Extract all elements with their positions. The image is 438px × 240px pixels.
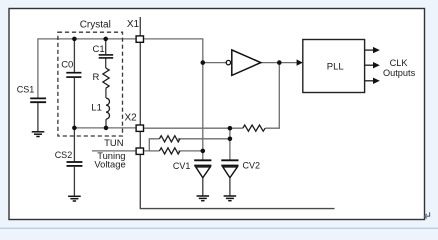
wire: C1/R/L1 series branch leads	[105, 39, 107, 128]
resistor (feedback, X2 row)	[243, 125, 265, 131]
varactor CV2: diode triangle	[223, 167, 238, 178]
junction: X2 row / CV2 branch	[228, 126, 233, 131]
wire: X2 row from pin to feedback resistor	[144, 127, 243, 129]
resistor (lower tuning, TUN to CV1 node)	[159, 148, 180, 154]
IC boundary box (left edge with pins, bottom edge)	[140, 17, 334, 209]
junction: inverter input tap	[201, 60, 206, 65]
inductor L1 (inside crystal)	[106, 98, 110, 119]
arrow: CLK output 2	[365, 62, 380, 68]
resistor R (inside crystal)	[103, 68, 109, 88]
PLL block	[303, 40, 365, 93]
arrow: CLK output 1	[365, 47, 380, 53]
capacitor CS1 plates	[30, 98, 46, 102]
ground below CS2	[68, 196, 81, 201]
crystal dashed box	[58, 32, 123, 136]
svg-text:C0: C0	[61, 59, 73, 70]
label C1	[93, 44, 105, 55]
svg-text:CLK: CLK	[390, 58, 409, 68]
junction: lower tuning resistor at CV1 node	[201, 149, 206, 154]
capacitor CS2 plates	[67, 162, 83, 166]
svg-text:X1: X1	[127, 19, 140, 30]
svg-text:PLL: PLL	[327, 62, 344, 73]
svg-text:TUN: TUN	[104, 138, 124, 149]
wire: CV2 vertical from X2 row down to CV2	[229, 128, 231, 159]
label C0	[61, 59, 73, 70]
svg-text:CS2: CS2	[55, 150, 73, 160]
wire: CV1 bottom lead	[202, 178, 204, 196]
wire: feedback vertical from inverter output down to X2 row	[265, 63, 279, 129]
resistor (upper tuning, TUN to CV2 node)	[159, 136, 180, 142]
wire: C0 branch leads	[73, 39, 75, 128]
wire: CV2 bottom lead	[229, 178, 231, 196]
capacitor C0 plates	[66, 73, 81, 77]
junction: inverter output node	[277, 60, 282, 65]
junction: bottom node / CS2 branch	[72, 126, 77, 131]
svg-text:Outputs: Outputs	[383, 68, 416, 78]
capacitor C1 plates	[99, 55, 114, 58]
label TUN	[104, 138, 124, 149]
label L1	[91, 103, 102, 114]
label CLK Outputs	[383, 58, 416, 78]
arrowhead: PLL input	[297, 59, 303, 65]
wire: lower tuning resistor right lead to CV1 node	[178, 150, 202, 152]
wire: TUN external lead	[92, 150, 135, 152]
pin TUN (terminal square)	[136, 148, 143, 154]
wire: TUN pin to tuning resistors split	[144, 139, 159, 151]
label CS1	[17, 85, 35, 95]
label Tuning Voltage	[94, 150, 125, 169]
label Crystal	[80, 19, 111, 30]
label R	[93, 72, 100, 83]
op-amp U1 inverter bubble	[226, 60, 230, 64]
wire: upper tuning resistor right lead to CV2 node	[178, 138, 230, 140]
varactor CV2: capacitor plates	[221, 160, 238, 165]
varactor CV1: capacitor plates	[194, 160, 211, 165]
label X2	[125, 113, 138, 124]
ground below CV1	[197, 196, 210, 201]
label X1	[127, 19, 140, 30]
pin X1 (terminal square)	[136, 36, 143, 42]
wire: inverter output to PLL input	[261, 62, 298, 64]
wire: X1 pin to vertical drop at x=202.8 down to CV1	[144, 39, 203, 160]
svg-text:Crystal: Crystal	[80, 19, 111, 30]
junction: C0 top	[72, 37, 77, 42]
pin X2 (terminal square)	[136, 125, 143, 131]
varactor CV1: diode triangle	[196, 167, 211, 178]
label CS2	[55, 150, 73, 160]
svg-text:CV1: CV1	[173, 161, 191, 171]
ground below CS1	[32, 132, 45, 137]
label CV2	[243, 160, 261, 170]
svg-text:Voltage: Voltage	[94, 158, 125, 169]
wire: inverter input tap	[203, 62, 226, 64]
junction: C1 top	[103, 37, 108, 42]
op-amp U1 inverter triangle	[232, 50, 261, 76]
svg-text:C1: C1	[93, 44, 105, 55]
svg-text:X2: X2	[125, 113, 138, 124]
arrow: CLK output 3	[365, 78, 380, 84]
svg-text:CV2: CV2	[243, 160, 261, 170]
junction: upper tuning resistor at CV2 node	[228, 137, 233, 142]
wire: CS2 branch (from crystal bottom node down)	[73, 128, 75, 196]
svg-text:CS1: CS1	[17, 85, 35, 95]
wire: CS1 bottom lead	[37, 103, 39, 132]
label CV1	[173, 161, 191, 171]
page corner return mark	[424, 212, 429, 218]
ground below CV2	[224, 196, 237, 201]
junction: L1 bottom	[104, 126, 109, 131]
wire: crystal bottom node	[74, 127, 135, 129]
svg-text:L1: L1	[91, 103, 102, 114]
svg-text:R: R	[93, 72, 100, 83]
bottom page edge line	[0, 228, 438, 229]
wire: top node from CS1 corner to X1 pin	[38, 39, 135, 98]
